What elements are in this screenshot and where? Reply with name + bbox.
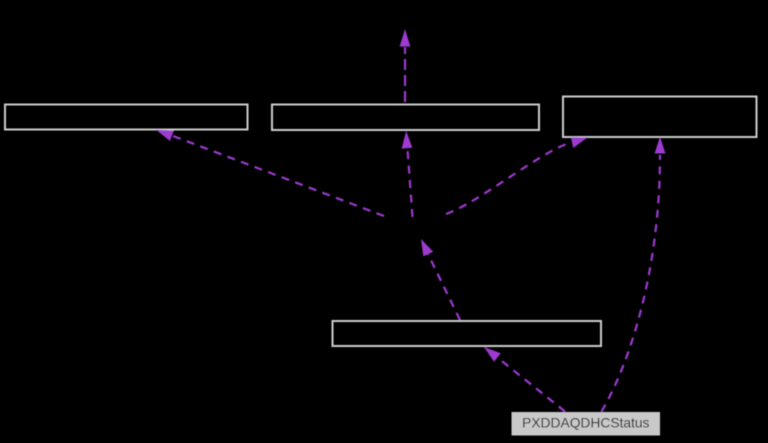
- arrowhead top: [400, 29, 411, 47]
- arrowhead at hidden node: [421, 239, 433, 256]
- node box middle-bottom (empty): [333, 321, 602, 346]
- node box top-left (empty): [5, 105, 248, 130]
- edge: hidden node to top-left box, dashed line: [172, 136, 384, 216]
- edge: PXDDAQDHCStatus to top-right box, dashed curve: [602, 155, 661, 412]
- arrowhead into top-right box bottom: [655, 137, 666, 154]
- edge: PXDDAQDHCStatus to middle-bottom box, dashed line: [498, 358, 565, 412]
- arrowhead into top-middle box bottom: [402, 131, 413, 149]
- node box top-middle (empty): [272, 105, 539, 131]
- current node box PXDDAQDHCStatus: [512, 413, 660, 436]
- node box top-right (empty, two-line): [563, 97, 757, 138]
- svg-text:PXDDAQDHCStatus: PXDDAQDHCStatus: [522, 415, 649, 430]
- arrowhead into middle-bottom box bottom: [484, 347, 501, 362]
- edge: top-middle box to off-top parent, dashed line: [404, 47, 406, 102]
- edge: hidden node to top-middle box, dashed line: [408, 149, 413, 217]
- arrowhead into top-right box bottom-left: [571, 137, 588, 148]
- edge: hidden node to top-right box, dashed curve: [446, 143, 570, 214]
- edge: middle-bottom box to hidden node, dashed line: [428, 254, 460, 320]
- arrowhead into top-left box bottom: [156, 130, 174, 141]
